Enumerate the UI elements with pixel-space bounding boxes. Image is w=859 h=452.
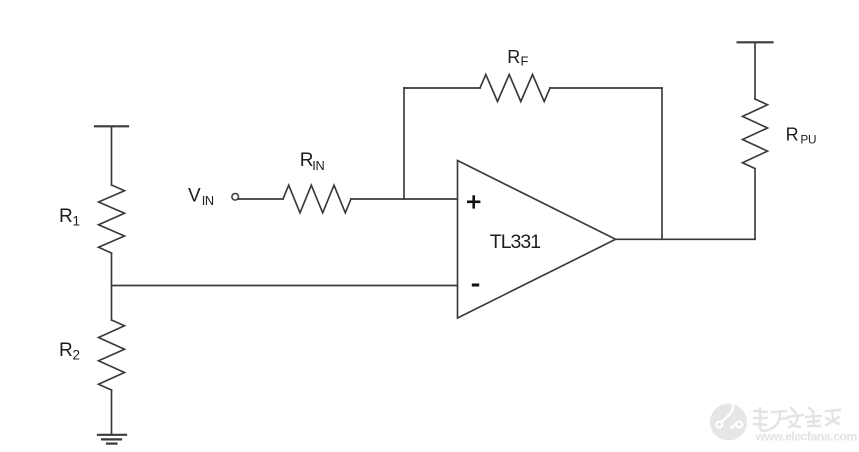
resistor RPU <box>743 99 768 169</box>
svg-text:R: R <box>786 125 799 145</box>
svg-text:R: R <box>59 340 73 361</box>
svg-text:TL331: TL331 <box>490 231 540 253</box>
resistor RIN <box>283 185 351 213</box>
svg-text:www.elecfans.com: www.elecfans.com <box>755 430 858 444</box>
svg-text:PU: PU <box>800 132 816 146</box>
power rail bar (right supply) <box>738 41 773 43</box>
svg-text:IN: IN <box>312 158 324 173</box>
wire <box>754 169 756 240</box>
label RF <box>507 47 528 68</box>
svg-text:1: 1 <box>73 214 81 229</box>
svg-text:R: R <box>507 47 520 67</box>
wire <box>112 285 458 287</box>
label RIN <box>300 150 325 173</box>
wire <box>550 87 662 89</box>
label R2 <box>59 340 80 363</box>
wire <box>111 253 113 320</box>
watermark Chinese characters <box>755 409 841 432</box>
pin - inverting input <box>472 284 479 287</box>
wire <box>351 198 458 200</box>
wire <box>239 198 283 200</box>
ground <box>98 435 126 444</box>
wire <box>661 88 663 239</box>
svg-text:V: V <box>188 186 201 207</box>
wire <box>111 390 113 435</box>
wire <box>111 126 113 185</box>
power rail bar (left supply) <box>95 125 128 127</box>
label RPU <box>786 125 817 147</box>
resistor R2 <box>99 320 125 390</box>
label VIN <box>188 186 214 209</box>
op-amp U1 triangle <box>458 161 616 319</box>
wire <box>404 87 480 89</box>
resistor R1 <box>99 185 125 253</box>
svg-text:F: F <box>521 54 529 69</box>
input terminal <box>232 194 239 201</box>
wire <box>754 42 756 99</box>
svg-text:2: 2 <box>73 348 81 363</box>
pin + non-inverting input <box>467 195 480 208</box>
svg-text:R: R <box>59 206 73 227</box>
resistor RF <box>480 75 550 102</box>
svg-text:IN: IN <box>202 193 214 208</box>
watermark logo <box>710 397 747 440</box>
label R1 <box>59 206 80 229</box>
wire <box>403 88 405 199</box>
wire <box>616 238 755 240</box>
